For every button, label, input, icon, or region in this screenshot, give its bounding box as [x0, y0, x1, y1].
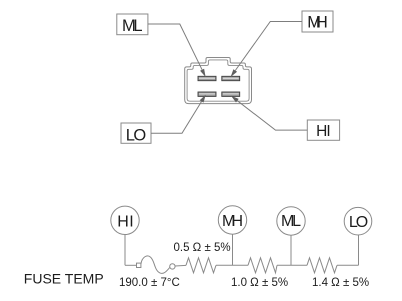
svg-text:HI: HI — [316, 123, 331, 140]
svg-text:FUSE TEMP: FUSE TEMP — [24, 271, 104, 287]
svg-text:HI: HI — [117, 213, 134, 230]
svg-text:MH: MH — [307, 14, 328, 32]
svg-text:1.0 Ω ± 5%: 1.0 Ω ± 5% — [231, 277, 288, 289]
svg-text:LO: LO — [349, 214, 368, 231]
svg-text:ML: ML — [281, 213, 301, 230]
svg-text:190.0 ± 7°C: 190.0 ± 7°C — [119, 277, 180, 289]
svg-text:LO: LO — [126, 127, 147, 145]
svg-text:ML: ML — [122, 17, 143, 35]
svg-text:MH: MH — [222, 213, 243, 230]
svg-text:0.5 Ω ± 5%: 0.5 Ω ± 5% — [174, 242, 231, 254]
svg-text:1.4 Ω ± 5%: 1.4 Ω ± 5% — [312, 277, 369, 289]
